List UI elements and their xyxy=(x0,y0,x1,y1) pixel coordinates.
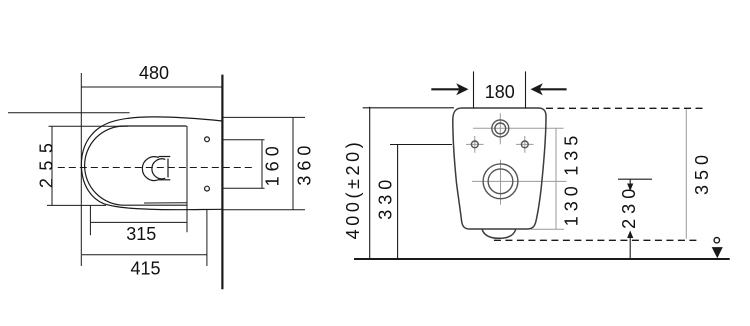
svg-text:180: 180 xyxy=(485,82,515,102)
svg-text:135: 135 xyxy=(562,131,582,176)
svg-text:330: 330 xyxy=(376,175,396,220)
svg-text:130: 130 xyxy=(561,181,581,226)
svg-text:315: 315 xyxy=(126,224,156,244)
svg-text:360: 360 xyxy=(294,141,314,186)
svg-text:160: 160 xyxy=(263,141,283,186)
svg-text:400(±20): 400(±20) xyxy=(343,139,363,240)
svg-text:230: 230 xyxy=(619,184,639,229)
svg-text:255: 255 xyxy=(36,136,56,189)
svg-text:415: 415 xyxy=(130,258,160,278)
svg-text:480: 480 xyxy=(139,63,169,83)
svg-text:350: 350 xyxy=(692,150,712,195)
